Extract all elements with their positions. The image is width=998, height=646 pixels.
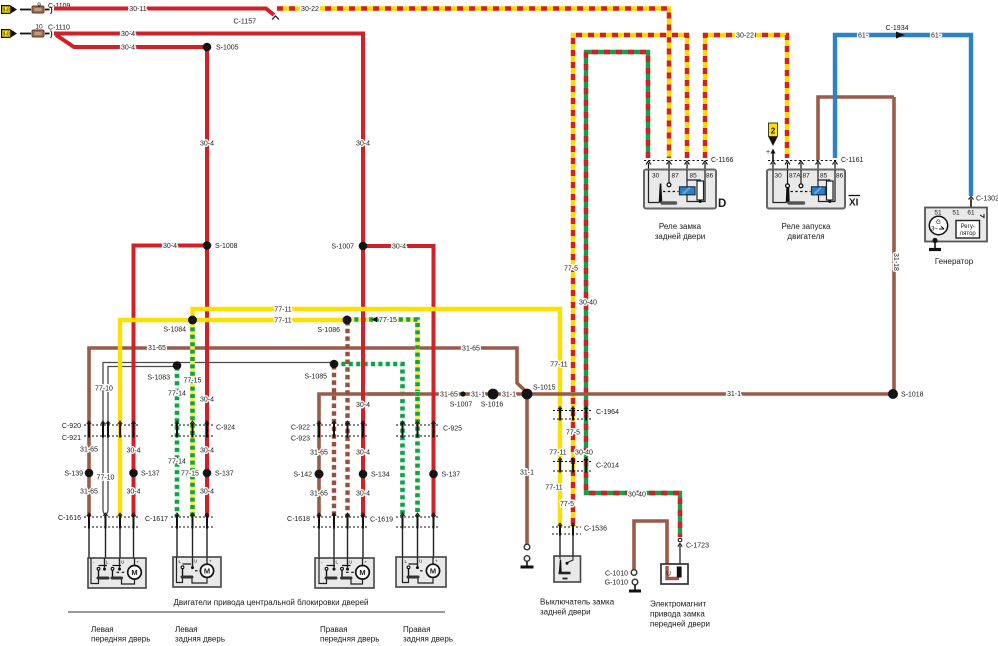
wire 77-15 (left rear door, yellow/green from S-1084 down) <box>190 320 195 517</box>
switch "Выключатель замка задней двери" (rear door lock switch) <box>554 556 581 582</box>
ground (body ground under wire 31-1) <box>521 544 534 567</box>
relay XI internal: coil winding <box>812 187 826 195</box>
svg-text:77-15: 77-15 <box>379 317 397 324</box>
splice S-137 left front (junction dot) <box>129 469 138 478</box>
relay XI internal: pin 86 wiring and bottom rail <box>819 170 836 202</box>
svg-text:30-22: 30-22 <box>301 6 319 13</box>
svg-text:C-925: C-925 <box>443 426 462 433</box>
splice S-1008 (junction dot) <box>203 241 212 250</box>
svg-text:31-65: 31-65 <box>148 345 166 352</box>
wire 30-4 (red, S-1008 down to left rear door) <box>205 246 209 518</box>
svg-text:C-1010: C-1010 <box>605 571 628 578</box>
svg-text:Регу-: Регу- <box>961 224 975 230</box>
svg-text:U: U <box>666 571 671 578</box>
generator symbol (G 3~) <box>929 216 947 234</box>
svg-text:C-2014: C-2014 <box>596 463 619 470</box>
relay D "Реле замка задней двери" (rear door lock relay) <box>644 170 716 209</box>
terminal C-1010 (eyelet) <box>631 570 637 576</box>
wire 77-5 (yellow/red dashed, relay D pin 85 up, across and long run down to C-1536) <box>573 35 687 527</box>
svg-text:+: + <box>766 149 770 156</box>
svg-text:двигателя: двигателя <box>787 232 824 241</box>
relay XI internal: movable contact lever (closed onto 87A) <box>787 188 790 202</box>
svg-text:+: + <box>137 560 140 565</box>
svg-text:30-4: 30-4 <box>200 489 214 496</box>
connector C-920 / C-921 (left front door) <box>84 421 140 438</box>
wire leads from C-1536 into rear door lock switch <box>560 535 573 557</box>
svg-text:30-4: 30-4 <box>356 450 370 457</box>
switch internal: base bar <box>559 572 571 575</box>
left front door motor (lock actuator, two switches + motor) <box>88 558 146 588</box>
svg-text:C-1619: C-1619 <box>370 517 393 524</box>
svg-text:M: M <box>359 568 365 577</box>
wire lead after connector C-1110 <box>45 33 50 35</box>
connector C-1618 (right front door) <box>313 513 369 529</box>
svg-text:10: 10 <box>35 24 43 31</box>
splice S-139 (junction dot) <box>85 469 94 478</box>
wire 31-1 (brown, S-1015 down to body ground point) <box>525 394 529 544</box>
svg-text:30: 30 <box>775 173 783 180</box>
svg-text:): ) <box>50 6 53 15</box>
connector C-925 (right rear door) <box>396 421 440 438</box>
svg-text:C-923: C-923 <box>291 436 310 443</box>
svg-text:C-1616: C-1616 <box>58 515 81 522</box>
svg-text:C-1166: C-1166 <box>711 157 734 164</box>
svg-text:77-15: 77-15 <box>181 471 199 478</box>
connector C-1109 (inline connector body) <box>32 6 44 13</box>
svg-text:30-4: 30-4 <box>126 489 140 496</box>
svg-text:S-1007: S-1007 <box>450 402 473 409</box>
wire 30-4 (red, S-1007 right branch down to right rear door) <box>363 246 434 517</box>
wire 31-18 (brown, relay XI pin 85 up and across) <box>818 97 894 160</box>
direction arrow on blue wire at C-1934 <box>896 32 905 39</box>
brown dashed wire (from S-1085 down to right front door) <box>332 365 336 517</box>
connector C-922 / C-923 (right front door) <box>313 421 369 438</box>
switch internal: right lead to contact <box>568 556 574 563</box>
connector C-1619 (right rear door) <box>396 513 440 529</box>
svg-text:M: M <box>430 567 436 576</box>
connector C-1964 <box>553 407 593 421</box>
svg-text:S-1018: S-1018 <box>901 392 924 399</box>
wire (brown, from C-1010 terminal up and into door lock solenoid) <box>634 521 667 570</box>
svg-text:U: U <box>121 560 124 565</box>
svg-text:задняя дверь: задняя дверь <box>403 635 453 644</box>
svg-text:30-4: 30-4 <box>200 141 214 148</box>
wire 31-1 (brown, lower horizontal run S-1015 to S-1018) <box>527 392 893 396</box>
svg-text:задней двери: задней двери <box>655 232 706 241</box>
wire 30-4 (red, from C-1110 right, down to S-1007) <box>54 34 363 247</box>
relay XI internal: pin 87A fixed contact <box>787 170 789 184</box>
small hook mark top right <box>980 214 984 218</box>
svg-text:C-1536: C-1536 <box>584 526 607 533</box>
svg-text:61-: 61- <box>858 33 869 40</box>
wire 30-4 (red branch to S-1005) <box>56 35 207 47</box>
relay D internal: pin 85 wiring <box>687 170 700 181</box>
splice S-1083 (junction dot) <box>173 361 182 370</box>
splice S-137 right rear (junction dot) <box>429 470 438 479</box>
splice S-1085 (junction dot) <box>330 360 339 369</box>
splice S-1005 (junction dot) <box>203 43 212 52</box>
svg-text:C-1723: C-1723 <box>686 543 709 550</box>
wire lead to connector C-1109 <box>20 9 31 11</box>
switch internal: left lead and lever <box>559 556 561 559</box>
svg-text:лятор: лятор <box>960 231 977 237</box>
svg-text:31-65: 31-65 <box>80 489 98 496</box>
svg-text:задней двери: задней двери <box>540 608 591 617</box>
wire 77-11 (yellow, main run: left front door up, across through S-1084 to S-1086) <box>120 320 347 517</box>
connector C-1157 (inline, on wire 30-11/30-22) <box>272 16 279 20</box>
splice S-1084 (junction dot) <box>188 316 197 325</box>
wire leads from connector into right front door actuator <box>319 529 363 559</box>
connector C-1161 (relay XI socket) <box>768 161 838 171</box>
svg-text:30-4: 30-4 <box>126 448 140 455</box>
relay D internal: pin 87 fixed contact <box>668 170 670 183</box>
svg-text:61-: 61- <box>931 33 942 40</box>
wire 77-14 (left rear door, from S-1083 down) <box>175 367 180 518</box>
wire leads from connector into left front door actuator <box>89 529 134 559</box>
connector C-924 (left rear door) <box>171 421 214 438</box>
svg-text:31-1: 31-1 <box>520 470 534 477</box>
svg-text:31-65: 31-65 <box>310 491 328 498</box>
connector C-1616 (left front door) <box>84 513 140 529</box>
svg-text:31-18: 31-18 <box>892 253 899 271</box>
svg-text:S-139: S-139 <box>64 471 83 478</box>
splice S-1015 (junction dot) <box>522 389 533 400</box>
splice S-1007 (junction dot) <box>359 242 368 251</box>
relay XI internal: mech dashed link <box>791 191 811 193</box>
connector C-1536 <box>552 523 581 536</box>
svg-text:9: 9 <box>37 2 41 9</box>
svg-text:S-134: S-134 <box>371 472 390 479</box>
svg-text:Левая: Левая <box>175 625 198 634</box>
connector C-1723 (door lock solenoid) <box>678 538 682 566</box>
svg-text:30-4: 30-4 <box>163 243 177 250</box>
left rear door motor (lock actuator, switch + motor) <box>173 557 221 587</box>
svg-text:31-65: 31-65 <box>462 346 480 353</box>
svg-text:77-5: 77-5 <box>564 266 578 273</box>
svg-text:30-40: 30-40 <box>575 450 593 457</box>
wire 31-18 (brown, down to S-1018) <box>892 97 896 394</box>
relay D internal: pin 86 wiring and bottom rail <box>687 170 705 202</box>
wire 77-15 crossing patch (green/yellow shows over brown) <box>415 391 420 397</box>
svg-text:S-1086: S-1086 <box>317 327 340 334</box>
wire 77-10 (gray pair, outer run) <box>103 363 334 512</box>
splice S-1016 (junction dot) <box>488 389 499 400</box>
svg-text:31-65: 31-65 <box>80 447 98 454</box>
svg-text:S-1083: S-1083 <box>147 375 170 382</box>
relay XI "Реле запуска двигателя" (engine start relay) <box>767 170 845 209</box>
wire 30-22 (yellow/red dashed, C-1157 across top to relay D pin 87) <box>277 9 669 159</box>
power feed arrow P1 (fuse link symbol, top left) <box>1 5 17 14</box>
svg-text:S-1085: S-1085 <box>304 374 327 381</box>
svg-text:77-5: 77-5 <box>560 501 574 508</box>
svg-text:G: G <box>936 220 941 226</box>
right rear door motor (lock actuator, switch + motor) <box>396 557 446 587</box>
caption separator line <box>68 611 445 613</box>
svg-text:85: 85 <box>820 173 828 180</box>
voltage regulator box <box>956 221 980 239</box>
svg-text:передняя дверь: передняя дверь <box>320 635 379 644</box>
svg-text:30-4: 30-4 <box>200 448 214 455</box>
svg-text:86: 86 <box>836 173 844 180</box>
splice S-1086 (junction dot) <box>343 316 352 325</box>
svg-text:Правая: Правая <box>320 625 348 634</box>
generator internal ground <box>932 238 937 243</box>
svg-text:30-4: 30-4 <box>392 244 406 251</box>
wire (black stub with arrow into relay XI pin 30) <box>771 149 776 162</box>
relay XI internal: pin 87 fixed contact <box>800 170 802 184</box>
svg-text:87A: 87A <box>789 173 801 180</box>
svg-text:привода замка: привода замка <box>650 610 705 619</box>
splice S-1018 (junction dot) <box>888 389 898 399</box>
wire lead after connector C-1109 <box>45 9 50 11</box>
svg-text:C-1618: C-1618 <box>287 516 310 523</box>
relay D internal: contact pedestal <box>662 201 676 204</box>
svg-text:77-11: 77-11 <box>274 318 291 325</box>
svg-text:C-924: C-924 <box>216 425 235 432</box>
svg-text:61: 61 <box>967 210 975 217</box>
generator "Генератор" <box>925 208 987 250</box>
svg-text:30-4: 30-4 <box>121 45 135 52</box>
svg-text:30-40: 30-40 <box>628 492 646 499</box>
svg-text:77-15: 77-15 <box>184 378 202 385</box>
svg-text:Электромагнит: Электромагнит <box>650 600 707 609</box>
svg-text:77-14: 77-14 <box>168 459 186 466</box>
wire leads from connector into right rear door actuator <box>403 529 434 558</box>
svg-text:9-8: 9-8 <box>3 8 10 14</box>
svg-text:D: D <box>718 198 726 210</box>
svg-text:U: U <box>419 559 422 564</box>
solenoid "Электромагнит привода замка передней двери" (front door lock solenoid) <box>661 564 688 584</box>
svg-text:Выключатель замка: Выключатель замка <box>540 598 615 607</box>
connector C-1166 (relay D socket) <box>644 161 709 171</box>
brown dashed wire (from S-1086 down to right front door) <box>345 321 349 517</box>
svg-text:C-920: C-920 <box>62 423 81 430</box>
direction arrow on wire 77-15 <box>372 317 378 323</box>
wire 30-11 (red, from C-1109 to C-1157) <box>54 9 274 16</box>
svg-text:передней двери: передней двери <box>650 620 710 629</box>
relay XI designator (overlined XI) <box>849 196 861 209</box>
wire 77-14 (right rear door, from S-1085 right then down) <box>334 364 403 517</box>
svg-text:77-11: 77-11 <box>274 307 291 314</box>
svg-text:C-1302: C-1302 <box>976 196 998 203</box>
relay XI internal: contact pedestal <box>789 201 804 204</box>
svg-text:30-22: 30-22 <box>736 33 754 40</box>
svg-text:): ) <box>50 30 53 39</box>
svg-text:87: 87 <box>803 173 811 180</box>
svg-text:S-1008: S-1008 <box>215 243 238 250</box>
relay D internal: coil winding <box>680 187 696 195</box>
svg-text:Правая: Правая <box>403 625 431 634</box>
svg-text:30-4: 30-4 <box>356 491 370 498</box>
svg-text:C-1157: C-1157 <box>234 19 257 26</box>
svg-text:C-1617: C-1617 <box>145 516 168 523</box>
svg-text:77-5: 77-5 <box>566 430 580 437</box>
svg-text:30-4: 30-4 <box>200 397 214 404</box>
svg-text:задняя дверь: задняя дверь <box>175 635 225 644</box>
svg-text:77-11: 77-11 <box>545 485 562 492</box>
svg-text:S-137: S-137 <box>442 472 461 479</box>
wire 30-4 (red, S-1007 down to right front door) <box>361 246 365 517</box>
svg-text:30-4: 30-4 <box>356 141 370 148</box>
svg-text:Левая: Левая <box>91 625 114 634</box>
switch internal: small tick <box>563 578 568 580</box>
svg-text:U: U <box>349 560 352 565</box>
svg-text:77-10: 77-10 <box>95 386 113 393</box>
svg-text:C-1934: C-1934 <box>886 25 909 32</box>
wire 61- (blue, relay XI pin 86 up, across through C-1934 to generator C-1302) <box>835 35 971 196</box>
wire 77-11 (yellow, S-1084 upper branch across and down to rear door lock switch) <box>193 309 561 527</box>
connector C-1617 (left rear door) <box>171 513 214 529</box>
svg-text:31-65: 31-65 <box>310 450 328 457</box>
svg-text:86: 86 <box>706 173 714 180</box>
svg-text:S-137: S-137 <box>141 471 160 478</box>
svg-text:передняя дверь: передняя дверь <box>91 635 150 644</box>
svg-text:77-14: 77-14 <box>168 391 186 398</box>
wire 31-1 crossing patch (brown over green at x=402) <box>368 392 413 396</box>
svg-text:S-1015: S-1015 <box>533 385 556 392</box>
wire 30-4 (red, S-1005 down to S-1008) <box>205 47 209 246</box>
connector C-2014 <box>553 458 593 473</box>
relay XI internal: pin 30 feed to pedestal <box>773 170 786 203</box>
svg-text:M: M <box>204 567 210 576</box>
svg-text:G-1010: G-1010 <box>605 580 628 587</box>
svg-text:31-65: 31-65 <box>440 392 458 399</box>
relay D internal: mech dashed link lever to coil <box>663 191 679 193</box>
svg-text:31-1: 31-1 <box>727 391 741 398</box>
relay D internal: pin 30 feed to switch pedestal <box>649 170 660 203</box>
wire leads from connector into left rear door actuator <box>177 529 207 558</box>
svg-text:2: 2 <box>771 127 776 136</box>
ground G-1010 <box>629 579 641 591</box>
svg-text:S-137: S-137 <box>215 471 234 478</box>
svg-text:30-4: 30-4 <box>121 31 135 38</box>
relay D internal: suppression resistor <box>697 181 704 200</box>
svg-text:C-1161: C-1161 <box>841 157 864 164</box>
svg-text:S-1007: S-1007 <box>331 244 354 251</box>
svg-text:9-8: 9-8 <box>3 32 10 38</box>
wire 30-40 (green/red dashed, relay D pin 30 up, across and long run down to C-1723) <box>586 52 680 537</box>
svg-text:87: 87 <box>672 173 680 180</box>
splice S-137 left rear (junction dot) <box>203 469 212 478</box>
connector C-1302 (generator) <box>969 197 974 208</box>
svg-text:77-11: 77-11 <box>549 450 566 457</box>
svg-text:M: M <box>131 568 137 577</box>
relay D internal: movable contact lever <box>660 184 662 203</box>
svg-text:U: U <box>194 559 197 564</box>
splice S-1007 lower (junction dot) <box>460 391 465 396</box>
svg-text:S-142: S-142 <box>293 472 312 479</box>
svg-text:S-1084: S-1084 <box>163 327 186 334</box>
svg-text:77-11: 77-11 <box>550 362 567 369</box>
svg-text:31-1: 31-1 <box>502 392 516 399</box>
svg-text:30: 30 <box>652 173 660 180</box>
svg-text:Двигатели привода центральной: Двигатели привода центральной блокировки… <box>174 598 369 607</box>
solenoid winding (black core) <box>677 567 682 578</box>
svg-text:XI: XI <box>849 198 859 209</box>
wire lead to connector C-1110 <box>20 33 31 35</box>
svg-text:85: 85 <box>690 173 698 180</box>
relay XI internal: pin 85 wiring <box>818 170 830 181</box>
battery feed flag "2" (yellow marker above relay XI pin 30) <box>769 123 778 146</box>
wire 31-65 (brown, right front door up to lower horizontal run) <box>319 394 527 517</box>
wire 31-65 (brown, upper run from left front door to S-1015) <box>89 348 527 517</box>
splice S-142 (junction dot) <box>315 470 324 479</box>
svg-text:51: 51 <box>934 210 942 217</box>
solenoid internal: brown lead to winding <box>667 566 679 579</box>
svg-text:Генератор: Генератор <box>935 257 974 266</box>
svg-text:30-4: 30-4 <box>356 402 370 409</box>
wire 77-10 (gray pair, inner run) <box>108 367 177 512</box>
svg-text:30-11: 30-11 <box>129 6 146 13</box>
svg-text:Реле запуска: Реле запуска <box>782 222 832 231</box>
svg-text:S-1016: S-1016 <box>481 402 504 409</box>
svg-text:31-1: 31-1 <box>471 392 485 399</box>
svg-text:51: 51 <box>952 210 960 217</box>
svg-text:+: + <box>209 559 212 564</box>
wire 30-4 (red, S-1008 left branch down to left front door) <box>134 246 208 518</box>
svg-text:C-921: C-921 <box>62 435 81 442</box>
svg-text:C-922: C-922 <box>291 425 310 432</box>
svg-text:30-40: 30-40 <box>579 300 597 307</box>
svg-text:3~: 3~ <box>931 227 938 233</box>
svg-text:77-10: 77-10 <box>97 475 115 482</box>
svg-text:Реле замка: Реле замка <box>659 222 702 231</box>
wire 77-10 merge into single pin at C-1616 <box>103 511 108 517</box>
relay XI internal: suppression resistor <box>827 181 834 200</box>
right front door motor (lock actuator, two switches + motor) <box>315 558 374 588</box>
wire 30-22 (yellow/red dashed, relay D pin 86 up, across to relay XI pin 87A) <box>705 35 787 158</box>
power feed arrow P2 (second feed, left) <box>1 29 17 38</box>
svg-text:S-1005: S-1005 <box>216 45 239 52</box>
wire 77-15 (right rear door, yellow/green from S-1086 right then down) <box>347 320 418 426</box>
svg-text:+: + <box>435 559 438 564</box>
svg-text:C-1964: C-1964 <box>596 409 619 416</box>
svg-text:+: + <box>365 560 368 565</box>
splice S-134 (junction dot) <box>359 470 368 479</box>
connector C-1110 (inline connector body) <box>32 30 44 37</box>
